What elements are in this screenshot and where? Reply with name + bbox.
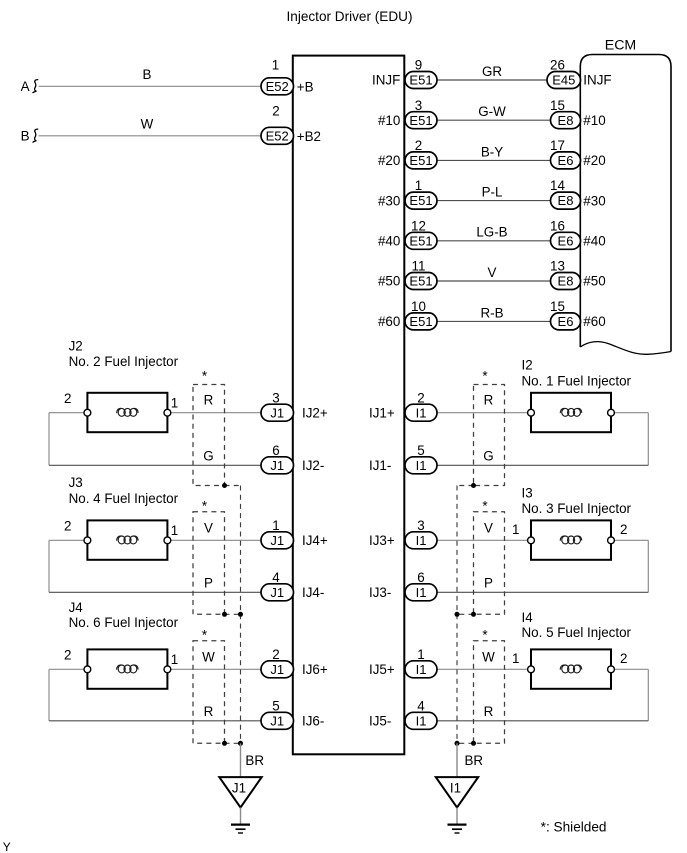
junction dot I4 bus <box>455 741 460 746</box>
svg-text:9: 9 <box>415 58 422 73</box>
svg-text:GR: GR <box>482 64 502 79</box>
svg-text:E51: E51 <box>409 153 432 168</box>
svg-text:R: R <box>204 704 214 719</box>
wire J2 pin1 to IJ2+ <box>167 412 265 414</box>
svg-text:2: 2 <box>64 647 71 662</box>
shield ground I1 <box>436 777 478 807</box>
wire J2 left vertical <box>48 413 50 466</box>
svg-text:#50: #50 <box>583 274 605 289</box>
terminal E8 #30 <box>551 192 581 209</box>
svg-text:5: 5 <box>417 443 424 458</box>
svg-text:J1: J1 <box>270 585 284 600</box>
terminal E51 #60 <box>405 313 437 330</box>
svg-text:IJ1+: IJ1+ <box>369 405 395 420</box>
wire P-L (#30) <box>433 200 555 202</box>
svg-text:No. 4 Fuel Injector: No. 4 Fuel Injector <box>69 491 179 506</box>
svg-text:15: 15 <box>550 98 565 113</box>
svg-text:#30: #30 <box>583 193 605 208</box>
svg-text:6: 6 <box>272 443 279 458</box>
svg-text:15: 15 <box>550 299 565 314</box>
wire BR to shield ground J1 <box>240 743 242 777</box>
wire IJ1- return <box>433 464 648 466</box>
svg-text:IJ4-: IJ4- <box>302 585 324 600</box>
wire BR to shield ground I1 <box>456 743 458 777</box>
junction dot I3 corner <box>471 612 476 617</box>
fuel injector J4 <box>87 649 167 688</box>
shield box J2 <box>193 385 225 486</box>
wire GR (INJF) <box>433 79 551 81</box>
svg-text:26: 26 <box>550 58 565 73</box>
svg-text:*: * <box>202 369 207 384</box>
svg-text:V: V <box>488 265 497 280</box>
svg-text:#10: #10 <box>583 113 605 128</box>
svg-text:I1: I1 <box>416 585 427 600</box>
svg-text:IJ1-: IJ1- <box>369 458 391 473</box>
svg-text:B: B <box>143 67 152 82</box>
svg-text:2: 2 <box>272 647 279 662</box>
svg-text:E52: E52 <box>266 79 289 94</box>
junction dot J2 drain <box>222 483 227 488</box>
svg-text:A: A <box>21 79 30 94</box>
wire LG-B (#40) <box>433 240 555 242</box>
svg-text:I1: I1 <box>416 405 427 420</box>
svg-text:*: * <box>202 499 207 514</box>
terminal J1 IJ6+ <box>261 661 294 678</box>
junction dot I2 drain <box>471 483 476 488</box>
terminal E52 +B2 <box>261 127 294 144</box>
svg-text:4: 4 <box>272 570 280 585</box>
terminal E8 #10 <box>551 112 581 129</box>
svg-text:W: W <box>202 649 215 664</box>
wire IJ2- return <box>49 464 265 466</box>
junction dot J4 corner <box>222 741 227 746</box>
svg-text:INJF: INJF <box>372 73 400 88</box>
shield box I2 <box>474 385 505 486</box>
svg-text:5: 5 <box>272 698 279 713</box>
wire IJ1+ to I2 <box>433 412 531 414</box>
svg-text:11: 11 <box>412 259 426 274</box>
svg-text:P: P <box>204 576 213 591</box>
junction dot J3 bus <box>238 612 243 617</box>
svg-text:G-W: G-W <box>478 104 506 119</box>
svg-text:BR: BR <box>465 753 484 768</box>
svg-text:1: 1 <box>171 396 178 411</box>
svg-text:J3: J3 <box>69 475 83 490</box>
terminal I1 IJ1- <box>405 457 437 474</box>
svg-text:G: G <box>483 449 493 464</box>
wire IJ5+ to I4 <box>433 668 531 670</box>
svg-text:IJ4+: IJ4+ <box>302 533 328 548</box>
svg-text:IJ3+: IJ3+ <box>369 533 395 548</box>
wire I3 right vertical <box>647 540 649 592</box>
svg-text:1: 1 <box>272 58 279 73</box>
svg-text:J1: J1 <box>270 533 284 548</box>
wire I2 right vertical <box>647 413 649 466</box>
svg-text:V: V <box>484 520 493 535</box>
svg-text:*: Shielded: *: Shielded <box>541 820 607 835</box>
svg-text:E8: E8 <box>558 193 574 208</box>
svg-text:#10: #10 <box>378 113 400 128</box>
wire J3 left vertical <box>48 540 50 592</box>
svg-text:#60: #60 <box>583 314 605 329</box>
terminal J1 IJ2- <box>261 457 294 474</box>
svg-text:J4: J4 <box>69 600 84 615</box>
wire J4 pin2 stub <box>49 668 87 670</box>
svg-text:E51: E51 <box>409 233 432 248</box>
shield drain J2 <box>225 485 241 487</box>
junction dot I3 bus <box>455 612 460 617</box>
svg-text:I2: I2 <box>522 358 533 373</box>
svg-text:2: 2 <box>64 391 71 406</box>
wire IJ3- return <box>433 591 648 593</box>
svg-text:3: 3 <box>417 518 424 533</box>
ECM box <box>580 55 671 352</box>
svg-text:2: 2 <box>417 390 424 405</box>
svg-text:IJ2-: IJ2- <box>302 458 324 473</box>
svg-text:No. 6 Fuel Injector: No. 6 Fuel Injector <box>69 615 179 630</box>
svg-text:1: 1 <box>171 652 178 667</box>
terminal J1 IJ6- <box>261 712 294 729</box>
svg-text:J1: J1 <box>270 458 284 473</box>
svg-text:#20: #20 <box>583 153 605 168</box>
svg-text:#20: #20 <box>378 153 400 168</box>
terminal I1 IJ5- <box>405 712 437 729</box>
shield box I3 <box>474 512 505 615</box>
svg-text:16: 16 <box>550 218 565 233</box>
junction dot I4 corner <box>471 741 476 746</box>
ECM torn bottom edge <box>580 342 671 355</box>
EDU box <box>293 56 405 755</box>
svg-text:E52: E52 <box>266 128 289 143</box>
terminal I1 IJ1+ <box>405 404 437 421</box>
wire J3 pin2 stub <box>49 539 87 541</box>
svg-text:#30: #30 <box>378 193 400 208</box>
terminal E8 #50 <box>551 273 581 290</box>
fuel injector J2 <box>87 393 167 432</box>
wire J4 left vertical <box>48 669 50 721</box>
svg-text:LG-B: LG-B <box>476 225 507 240</box>
svg-text:1: 1 <box>171 523 178 538</box>
wire B-Y (#20) <box>433 159 555 161</box>
svg-text:#40: #40 <box>583 234 605 249</box>
svg-text:1: 1 <box>272 518 279 533</box>
svg-text:I1: I1 <box>416 533 427 548</box>
ground right <box>448 823 467 825</box>
svg-text:INJF: INJF <box>583 73 611 88</box>
wire I3 pin2 stub <box>611 539 648 541</box>
svg-text:W: W <box>482 649 495 664</box>
shield box I4 <box>474 641 505 744</box>
terminal J1 IJ4+ <box>261 532 294 549</box>
svg-text:P: P <box>484 576 493 591</box>
shield drain I3 <box>457 613 474 615</box>
wire I1 to ground <box>456 808 458 825</box>
svg-text:*: * <box>482 499 487 514</box>
terminal I1 IJ5+ <box>405 661 437 678</box>
junction dot J3 corner <box>222 612 227 617</box>
svg-text:13: 13 <box>550 259 565 274</box>
svg-text:G: G <box>203 449 213 464</box>
svg-text:14: 14 <box>550 178 565 193</box>
terminal E51 #50 <box>405 273 437 290</box>
svg-text:#60: #60 <box>378 314 400 329</box>
ground left <box>231 823 250 825</box>
shield ground J1 <box>219 777 261 807</box>
fuel injector I2 <box>531 393 611 432</box>
terminal J1 IJ2+ <box>261 404 294 421</box>
shield box J3 <box>193 512 225 615</box>
svg-text:1: 1 <box>512 522 519 537</box>
svg-text:IJ6-: IJ6- <box>302 714 324 729</box>
shield drain J4 <box>225 742 241 744</box>
svg-text:ECM: ECM <box>605 37 637 52</box>
terminal E6 #20 <box>551 152 581 169</box>
wire IJ3+ to I3 <box>433 539 531 541</box>
wire B (W) <box>39 135 266 137</box>
svg-text:J1: J1 <box>270 713 284 728</box>
svg-text:No. 5 Fuel Injector: No. 5 Fuel Injector <box>522 625 632 640</box>
svg-text:IJ3-: IJ3- <box>369 585 391 600</box>
terminal E6 #40 <box>551 232 581 249</box>
svg-text:*: * <box>202 628 207 643</box>
svg-text:1: 1 <box>415 178 422 193</box>
wire J4 pin1 to IJ6+ <box>167 668 265 670</box>
fuel injector I4 <box>531 649 611 688</box>
svg-text:R: R <box>204 393 214 408</box>
svg-text:E6: E6 <box>558 233 574 248</box>
wire J1 to ground <box>240 808 242 825</box>
terminal I1 IJ3- <box>405 584 437 601</box>
terminal E51 #10 <box>405 112 437 129</box>
terminal E6 #60 <box>551 313 581 330</box>
svg-text:I1: I1 <box>450 781 461 796</box>
svg-text:E51: E51 <box>409 274 432 289</box>
wire I4 right vertical <box>647 669 649 721</box>
wire J3 pin1 to IJ4+ <box>167 539 265 541</box>
svg-text:IJ2+: IJ2+ <box>302 405 328 420</box>
svg-text:I3: I3 <box>522 486 533 501</box>
shield drain I4 <box>457 742 474 744</box>
svg-text:10: 10 <box>411 299 426 314</box>
svg-text:#50: #50 <box>378 274 400 289</box>
svg-text:I1: I1 <box>416 713 427 728</box>
svg-text:IJ5-: IJ5- <box>369 714 391 729</box>
svg-text:E51: E51 <box>409 314 432 329</box>
shield box J4 <box>193 641 225 744</box>
svg-text:B-Y: B-Y <box>481 144 503 159</box>
svg-text:I1: I1 <box>416 662 427 677</box>
svg-text:+B2: +B2 <box>297 129 321 144</box>
svg-text:No. 2 Fuel Injector: No. 2 Fuel Injector <box>69 354 179 369</box>
svg-text:E51: E51 <box>409 113 432 128</box>
svg-text:2: 2 <box>272 104 279 119</box>
svg-text:E8: E8 <box>558 113 574 128</box>
svg-text:Y: Y <box>3 840 11 853</box>
fuel injector I3 <box>531 520 611 559</box>
svg-text:4: 4 <box>417 698 425 713</box>
wire I2 pin2 stub <box>611 412 648 414</box>
shield drain I2 <box>457 485 474 487</box>
terminal E51 INJF <box>405 72 437 89</box>
svg-text:3: 3 <box>415 98 422 113</box>
svg-text:IJ6+: IJ6+ <box>302 662 328 677</box>
wire IJ5- return <box>433 720 648 722</box>
svg-text:E51: E51 <box>409 73 432 88</box>
terminal E45 INJF <box>547 72 581 89</box>
terminal E51 #40 <box>405 232 437 249</box>
svg-text:J1: J1 <box>232 781 246 796</box>
svg-text:Injector Driver (EDU): Injector Driver (EDU) <box>287 8 413 24</box>
svg-text:*: * <box>482 628 487 643</box>
svg-text:E8: E8 <box>558 274 574 289</box>
svg-text:J1: J1 <box>270 662 284 677</box>
svg-text:BR: BR <box>245 753 264 768</box>
shield drain J3 <box>225 613 241 615</box>
svg-text:17: 17 <box>550 138 565 153</box>
svg-text:No. 3 Fuel Injector: No. 3 Fuel Injector <box>522 501 632 516</box>
svg-text:J1: J1 <box>270 405 284 420</box>
terminal J1 IJ4- <box>261 584 294 601</box>
svg-text:3: 3 <box>272 390 279 405</box>
wire I4 pin2 stub <box>611 668 648 670</box>
wire V (#50) <box>433 280 555 282</box>
svg-text:2: 2 <box>620 522 627 537</box>
svg-text:No. 1 Fuel Injector: No. 1 Fuel Injector <box>522 373 632 388</box>
fuel injector J3 <box>87 520 167 559</box>
svg-text:1: 1 <box>417 647 424 662</box>
svg-text:+B: +B <box>297 79 314 94</box>
wire J2 pin2 stub <box>49 412 87 414</box>
terminal I1 IJ3+ <box>405 532 437 549</box>
wire IJ6- return <box>49 720 265 722</box>
svg-text:#40: #40 <box>378 234 400 249</box>
terminal E51 #20 <box>405 152 437 169</box>
svg-text:2: 2 <box>64 518 71 533</box>
svg-text:12: 12 <box>411 218 426 233</box>
wire G-W (#10) <box>433 119 555 121</box>
svg-text:1: 1 <box>512 651 519 666</box>
svg-text:W: W <box>141 116 154 131</box>
svg-text:6: 6 <box>417 570 424 585</box>
svg-text:I4: I4 <box>522 610 534 625</box>
svg-text:V: V <box>204 520 213 535</box>
junction dot J4 bus <box>238 741 243 746</box>
svg-text:I1: I1 <box>416 458 427 473</box>
svg-text:IJ5+: IJ5+ <box>369 662 395 677</box>
svg-text:E51: E51 <box>409 193 432 208</box>
svg-text:R: R <box>484 393 494 408</box>
wire A (B) <box>39 85 266 87</box>
svg-text:B: B <box>21 129 30 144</box>
terminal E52 +B <box>261 78 294 95</box>
svg-text:2: 2 <box>620 651 627 666</box>
svg-text:*: * <box>482 369 487 384</box>
svg-text:E45: E45 <box>552 73 575 88</box>
svg-text:E6: E6 <box>558 314 574 329</box>
svg-text:P-L: P-L <box>482 185 503 200</box>
svg-text:R: R <box>484 704 494 719</box>
svg-text:R-B: R-B <box>480 305 503 320</box>
svg-text:E6: E6 <box>558 153 574 168</box>
svg-text:J2: J2 <box>69 339 83 354</box>
terminal E51 #30 <box>405 192 437 209</box>
wire R-B (#60) <box>433 320 555 322</box>
svg-text:2: 2 <box>415 138 422 153</box>
wire IJ4- return <box>49 591 265 593</box>
